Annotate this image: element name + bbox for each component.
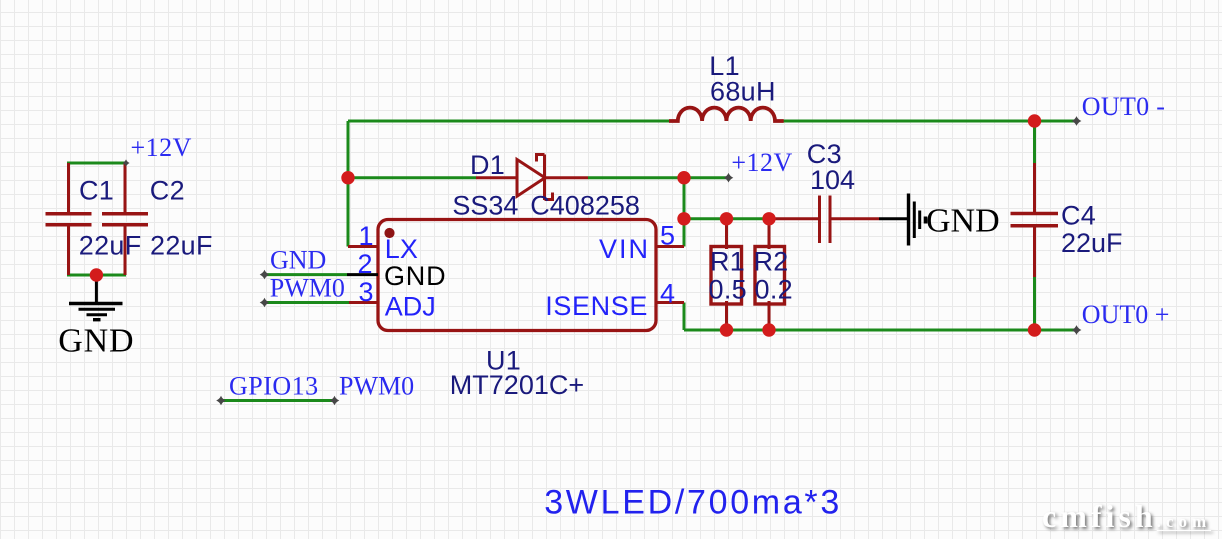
svg-text:3: 3 — [358, 277, 373, 307]
svg-text:+12V: +12V — [731, 148, 792, 177]
svg-text:OUT0 +: OUT0 + — [1082, 300, 1170, 329]
svg-text:22uF: 22uF — [1061, 228, 1123, 258]
svg-text:C1: C1 — [79, 175, 114, 205]
svg-text:PWM0: PWM0 — [270, 274, 345, 303]
svg-text:104: 104 — [810, 165, 855, 195]
svg-text:MT7201C+: MT7201C+ — [450, 370, 584, 400]
svg-text:68uH: 68uH — [710, 76, 776, 106]
svg-text:3WLED/700ma*3: 3WLED/700ma*3 — [544, 483, 842, 521]
svg-text:ISENSE: ISENSE — [545, 291, 648, 321]
svg-text:D1: D1 — [470, 150, 505, 180]
svg-text:GND: GND — [926, 203, 1000, 240]
svg-text:1: 1 — [358, 221, 373, 251]
svg-text:4: 4 — [660, 279, 675, 309]
svg-text:R2: R2 — [754, 246, 789, 276]
svg-text:SS34: SS34 — [452, 191, 518, 221]
svg-text:C4: C4 — [1061, 200, 1096, 230]
svg-text:C408258: C408258 — [530, 191, 640, 221]
svg-text:C2: C2 — [150, 175, 185, 205]
svg-text:PWM0: PWM0 — [339, 372, 414, 401]
svg-text:2: 2 — [357, 249, 372, 279]
svg-text:VIN: VIN — [599, 234, 650, 264]
svg-text:GND: GND — [270, 246, 326, 275]
svg-text:GPIO13: GPIO13 — [229, 372, 319, 401]
svg-text:LX: LX — [385, 234, 418, 264]
svg-text:0.5: 0.5 — [709, 274, 747, 304]
svg-text:5: 5 — [660, 221, 675, 251]
svg-text:GND: GND — [58, 322, 134, 359]
svg-text:0.2: 0.2 — [755, 274, 793, 304]
svg-text:22uF: 22uF — [79, 231, 142, 261]
svg-text:ADJ: ADJ — [385, 292, 436, 322]
svg-text:22uF: 22uF — [150, 231, 213, 261]
svg-text:R1: R1 — [710, 246, 745, 276]
svg-text:OUT0 -: OUT0 - — [1082, 92, 1165, 121]
svg-text:GND: GND — [384, 261, 446, 291]
svg-text:+12V: +12V — [131, 133, 192, 162]
